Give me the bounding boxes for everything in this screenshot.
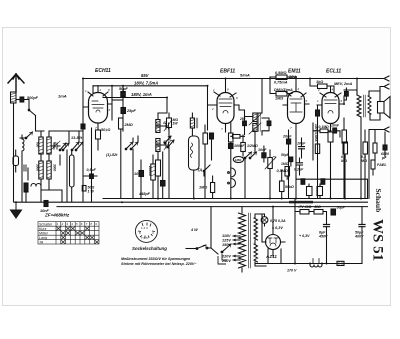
svg-text:7 6 5: 7 6 5 xyxy=(141,236,148,240)
svg-text:ECH11: ECH11 xyxy=(95,68,111,74)
svg-text:500pF: 500pF xyxy=(27,96,39,100)
antenna xyxy=(8,74,24,92)
PS verticals xyxy=(262,199,295,264)
filter caps xyxy=(324,207,366,264)
ground symbol xyxy=(11,202,22,218)
cathode resistor 50ohm xyxy=(96,130,101,150)
svg-text:3000: 3000 xyxy=(53,164,57,171)
mains plug symbol xyxy=(218,254,227,264)
encircled 1M label xyxy=(233,157,243,163)
loudspeaker xyxy=(377,91,390,120)
svg-text:47: 47 xyxy=(162,140,167,144)
main top bus 85V xyxy=(83,76,389,150)
svg-text:0,1MΩ: 0,1MΩ xyxy=(361,155,367,163)
svg-text:170 V: 170 V xyxy=(287,269,297,273)
svg-text:50µF400V: 50µF400V xyxy=(354,231,364,239)
svg-text:10nF: 10nF xyxy=(258,148,267,152)
svg-text:1mA: 1mA xyxy=(58,94,67,99)
detector switch contacts xyxy=(244,152,256,199)
svg-text:2: 2 xyxy=(61,222,64,226)
svg-text:85V: 85V xyxy=(141,73,150,78)
antenna coil L1 xyxy=(11,92,17,202)
svg-text:50pF: 50pF xyxy=(119,87,129,91)
schematic sheet frame xyxy=(3,28,391,306)
svg-text:Schalter: Schalter xyxy=(39,222,53,226)
svg-text:5/mA: 5/mA xyxy=(240,73,250,78)
svg-text:Schaub: Schaub xyxy=(374,189,383,213)
bus 180V 1mA xyxy=(103,98,167,114)
svg-text:220V: 220V xyxy=(221,255,231,259)
svg-text:(1)-52t: (1)-52t xyxy=(106,153,118,157)
resistor 2M osc xyxy=(119,118,124,199)
svg-text:Ströme mit Röhrenmeter bei Net: Ströme mit Röhrenmeter bei Netzsp. 220V~ xyxy=(121,262,197,266)
IF1 secondary side parts xyxy=(164,113,174,199)
svg-text:10nF: 10nF xyxy=(331,124,340,128)
tube ECH11 xyxy=(83,86,112,130)
primary taps xyxy=(221,235,240,261)
output connectors right xyxy=(369,84,389,199)
tone network resistors xyxy=(343,130,387,199)
RF coil T1 lower xyxy=(39,154,51,202)
tube socket diagram xyxy=(135,220,157,242)
switch antenna xyxy=(28,109,35,131)
switch arrowheads xyxy=(30,132,257,248)
svg-text:0,5MΩ: 0,5MΩ xyxy=(277,169,288,173)
svg-text:0,75 0,3A: 0,75 0,3A xyxy=(270,219,286,223)
volume pot 0.5M xyxy=(265,150,276,199)
svg-text:100nF: 100nF xyxy=(234,144,245,148)
svg-text:100: 100 xyxy=(134,172,141,176)
wave switch S1 xyxy=(20,131,44,139)
svg-text:50µF: 50µF xyxy=(337,206,346,210)
svg-text:1/2MΩ: 1/2MΩ xyxy=(247,144,258,148)
svg-text:Mittel: Mittel xyxy=(39,232,48,236)
pin digits ECH11 xyxy=(85,88,111,130)
svg-text:180V, 7,5mA: 180V, 7,5mA xyxy=(134,81,158,86)
svg-text:WS 51: WS 51 xyxy=(370,219,386,261)
screen feed wire xyxy=(111,86,113,120)
ECL11 cathode parts xyxy=(316,96,347,199)
svg-text:50kΩ: 50kΩ xyxy=(285,185,294,189)
wave trap coil top xyxy=(190,113,198,136)
svg-text:2: 2 xyxy=(99,88,102,92)
chassis bar xyxy=(289,201,313,204)
osc coil 20000 xyxy=(151,155,156,199)
EBF11 left components xyxy=(203,97,214,199)
resistor 1/2M xyxy=(241,135,246,156)
tube ECL11 xyxy=(317,86,344,130)
cap 50pF osc grid xyxy=(112,100,126,131)
cap 50pF stack xyxy=(121,86,126,100)
svg-text:4 W: 4 W xyxy=(190,228,198,232)
transformer secondary xyxy=(254,214,266,266)
svg-text:2MΩ: 2MΩ xyxy=(124,123,133,127)
cap 50uF em xyxy=(289,157,293,166)
svg-text:250: 250 xyxy=(239,117,246,121)
resistor 50k xyxy=(280,170,285,199)
cap 20nF xyxy=(287,130,291,199)
svg-text:0,5MΩ: 0,5MΩ xyxy=(275,71,286,75)
band switch contacts mid xyxy=(49,124,85,151)
svg-text:3000: 3000 xyxy=(36,164,40,171)
tube EM11 xyxy=(283,86,309,199)
mains switch xyxy=(186,207,218,254)
svg-text:1MΩ: 1MΩ xyxy=(199,186,207,190)
svg-text:25pF: 25pF xyxy=(126,109,137,113)
svg-text:50µF: 50µF xyxy=(281,153,290,157)
svg-text:ZF=468kHz: ZF=468kHz xyxy=(44,213,70,218)
resistor 0.1M detector xyxy=(229,123,234,142)
svg-text:50Ω1 W: 50Ω1 W xyxy=(88,186,95,194)
coil left small xyxy=(22,135,24,202)
left section verticals xyxy=(24,131,79,202)
svg-text:MΩ1W: MΩ1W xyxy=(173,118,179,126)
svg-text:38V: 38V xyxy=(289,75,296,79)
resistor 1M ta xyxy=(211,176,215,199)
heater winding symbol xyxy=(310,259,322,268)
svg-text:250: 250 xyxy=(155,140,159,147)
wave trap shield box xyxy=(189,136,200,199)
svg-text:MEV, 2mA: MEV, 2mA xyxy=(334,82,352,86)
svg-text:47: 47 xyxy=(162,121,167,125)
svg-text:Meßinstrument 333Ω/V für Spann: Meßinstrument 333Ω/V für Spannungen xyxy=(121,257,191,261)
pin digits ECL11 xyxy=(317,88,343,131)
cap column right of EM11 xyxy=(297,138,305,175)
svg-text:1MΩ: 1MΩ xyxy=(275,97,283,101)
power transformer primary xyxy=(239,207,251,272)
resistor 20k xyxy=(156,160,161,199)
wirewound pot left xyxy=(70,150,75,202)
svg-text:150V: 150V xyxy=(222,243,231,247)
svg-text:20000: 20000 xyxy=(148,165,152,176)
svg-text:20nF: 20nF xyxy=(282,135,292,139)
svg-text:448pF: 448pF xyxy=(138,192,151,196)
resistor 1M em xyxy=(285,167,290,180)
svg-text:250: 250 xyxy=(155,121,159,128)
svg-text:600: 600 xyxy=(36,142,40,148)
svg-text:EBF11: EBF11 xyxy=(220,69,235,75)
svg-text:-7V 40Ω: -7V 40Ω xyxy=(298,205,312,209)
svg-text:1kΩ: 1kΩ xyxy=(316,80,323,84)
cap 100 blob xyxy=(139,160,144,199)
resistor 0.1M ecl grid xyxy=(315,144,319,154)
pilot lamp xyxy=(261,214,268,226)
RF coil T1 upper xyxy=(39,131,51,154)
svg-text:FAEL: FAEL xyxy=(377,163,387,167)
switch contacts under ECH11 xyxy=(125,136,138,199)
svg-text:0,2µF: 0,2µF xyxy=(294,168,304,172)
svg-text:2: 2 xyxy=(211,107,214,111)
svg-text:100V,4,5mA: 100V,4,5mA xyxy=(314,124,318,142)
svg-text:50‡Ω: 50‡Ω xyxy=(101,128,110,132)
TA pickup jacks xyxy=(203,165,235,188)
rectifier AZ11 xyxy=(262,228,285,256)
svg-text:600: 600 xyxy=(53,142,57,148)
svg-text:1MΩ: 1MΩ xyxy=(281,162,289,166)
svg-text:40Ω: 40Ω xyxy=(313,205,321,209)
EM11 top resistors xyxy=(270,75,296,96)
svg-text:110V: 110V xyxy=(222,234,231,238)
AF feedback row xyxy=(296,175,368,199)
bus 180V 7.5mA xyxy=(93,86,208,97)
svg-text:AZ11: AZ11 xyxy=(265,254,277,259)
svg-text:0,1MΩ: 0,1MΩ xyxy=(341,155,347,163)
svg-text:125V: 125V xyxy=(222,239,231,243)
tube EBF11 xyxy=(208,79,240,133)
svg-text:0,1MΩ: 0,1MΩ xyxy=(319,125,330,129)
resistor left edge xyxy=(13,150,19,172)
EM11-ECL11 link row xyxy=(313,123,340,160)
IF transformer 1 xyxy=(156,113,171,160)
IF transformer 2 xyxy=(239,79,271,153)
pin digits EM11 xyxy=(284,87,308,130)
cap 100nF xyxy=(229,142,234,199)
oscillator coil block xyxy=(24,183,62,202)
coil value labels xyxy=(36,121,167,171)
svg-text:EM11: EM11 xyxy=(288,69,301,75)
svg-text:10µF: 10µF xyxy=(297,142,306,146)
svg-text:2: 2 xyxy=(317,88,320,92)
coupling caps mid-left xyxy=(82,128,97,202)
svg-text:13-52t: 13-52t xyxy=(71,136,83,140)
svg-text:≈ 6,3V: ≈ 6,3V xyxy=(272,226,283,230)
svg-text:0,75mA: 0,75mA xyxy=(274,81,288,85)
bottom rail xyxy=(255,263,362,265)
output transformer xyxy=(344,79,377,199)
svg-text:Kurz: Kurz xyxy=(39,227,47,231)
switch table xyxy=(38,222,99,244)
padder trimmer caps xyxy=(51,141,60,150)
svg-text:180V, 1mA: 180V, 1mA xyxy=(131,92,152,97)
resistor 1k ECL11 xyxy=(310,79,334,93)
bottom bus lines xyxy=(15,199,368,207)
dropping resistors xyxy=(295,209,336,215)
svg-text:DM1(2)mA: DM1(2)mA xyxy=(274,88,293,92)
svg-text:1MΩ: 1MΩ xyxy=(235,158,242,162)
capacitor 500pF antenna xyxy=(16,97,29,109)
pin digits EBF11 xyxy=(211,88,238,132)
padder cap 448pF xyxy=(161,152,166,199)
cap 10nF on bus xyxy=(44,201,48,207)
cap 10nF det xyxy=(262,146,266,162)
resistor 2M if2 xyxy=(231,135,245,139)
svg-text:Sockelschaltung: Sockelschaltung xyxy=(132,246,167,251)
svg-text:0,5µF: 0,5µF xyxy=(87,168,97,172)
svg-text:Lang: Lang xyxy=(39,236,47,240)
rail small box xyxy=(337,261,344,265)
svg-text:TA: TA xyxy=(197,168,202,173)
svg-text:1 2 3: 1 2 3 xyxy=(141,226,148,230)
svg-text:TA: TA xyxy=(39,241,44,245)
svg-text:+ 6,3V: + 6,3V xyxy=(299,234,310,238)
svg-text:ECL11: ECL11 xyxy=(326,69,341,75)
